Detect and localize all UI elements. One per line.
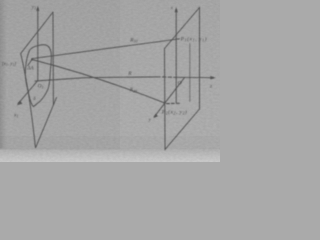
point A dot xyxy=(31,59,33,61)
ray A to P2 xyxy=(32,60,165,103)
observation plane (right parallelogram) xyxy=(165,8,200,150)
object blob outline xyxy=(25,45,51,107)
junction P2 dot xyxy=(164,102,166,104)
scan grain xyxy=(0,0,220,162)
inner vertical line in right plane xyxy=(189,44,191,102)
arrowhead y1 axis top xyxy=(36,6,39,12)
x1 axis (left plane, to lower-left) xyxy=(18,81,38,104)
arrowhead y axis lower-left xyxy=(153,114,158,118)
arrowhead x1 axis end xyxy=(17,101,23,106)
y2 axis (right plane, vertical) xyxy=(175,10,177,103)
R line dashed part behind right plane xyxy=(163,76,177,78)
object plane (left parallelogram) xyxy=(21,12,57,148)
arrowhead y2 axis top xyxy=(175,7,178,13)
leader from delta-A label to point A xyxy=(28,60,32,66)
R line (O1 to O, optical axis, solid part) xyxy=(35,77,160,81)
dashed segment from P2 to the right xyxy=(167,102,180,104)
y1 axis (left plane, vertical) xyxy=(37,9,39,81)
z axis (right of origin O) xyxy=(176,76,213,78)
page background xyxy=(0,0,220,162)
y axis (right plane, to lower-left) xyxy=(154,78,184,117)
arrowhead z axis right xyxy=(210,76,216,79)
ray A to P1 xyxy=(32,39,180,59)
